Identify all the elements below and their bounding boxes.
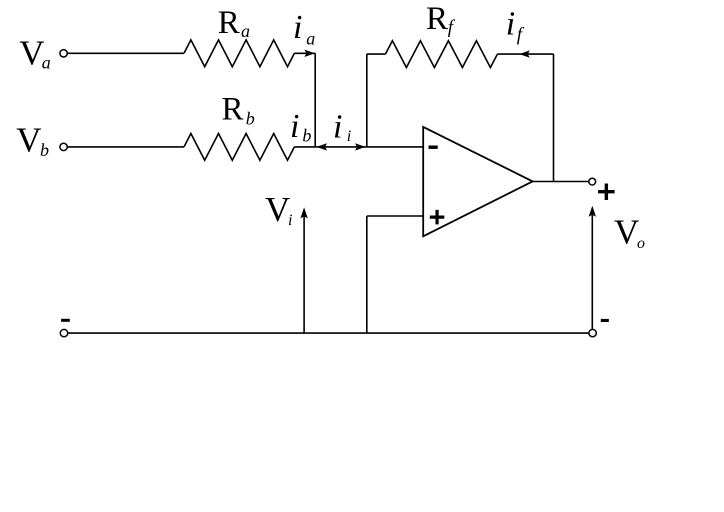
svg-text:i: i — [347, 128, 351, 145]
wire node B to op-amp inverting input — [367, 146, 423, 148]
arrowhead current ii — [355, 143, 366, 150]
arrowhead Vi — [300, 207, 307, 218]
wire Vo arrow line — [591, 209, 593, 329]
svg-text:V: V — [265, 190, 290, 229]
wire op-amp noninverting input — [367, 215, 423, 217]
svg-text:f: f — [517, 25, 525, 46]
svg-text:R: R — [218, 5, 240, 41]
svg-text:i: i — [293, 9, 302, 46]
svg-text:b: b — [302, 126, 311, 146]
svg-text:i: i — [290, 108, 299, 145]
svg-text:R: R — [426, 1, 448, 37]
wire op-amp output — [533, 181, 589, 183]
node output terminal — [589, 178, 596, 185]
wire node A vertical — [314, 53, 316, 147]
wire Vi arrow line — [303, 211, 305, 333]
arrowhead current if — [519, 50, 530, 57]
node Va terminal — [60, 50, 67, 57]
op-amp minus sign — [429, 146, 438, 149]
wire node A to node B — [315, 146, 367, 148]
node bottom-right terminal — [589, 329, 596, 336]
op-amp U1 — [423, 127, 532, 236]
resistor Ra — [184, 40, 294, 67]
svg-text:i: i — [506, 5, 515, 42]
svg-text:f: f — [448, 17, 456, 38]
svg-text:a: a — [306, 29, 315, 49]
svg-text:a: a — [42, 53, 51, 73]
svg-text:o: o — [637, 235, 645, 252]
wire ground rail — [68, 332, 589, 334]
wire Ra to node A — [294, 52, 315, 54]
resistor Rf — [385, 41, 497, 68]
svg-text:V: V — [16, 121, 41, 160]
svg-text:R: R — [222, 91, 244, 127]
arrowhead Vo — [589, 206, 596, 217]
wire feedback left vertical — [366, 54, 368, 147]
resistor Rb — [184, 134, 294, 161]
svg-text:V: V — [614, 212, 639, 251]
left minus sign — [61, 319, 70, 322]
svg-text:i: i — [333, 109, 342, 146]
wire Va to Ra — [67, 52, 184, 54]
wire to Rf — [367, 53, 386, 55]
right minus sign — [601, 319, 609, 322]
wire feedback right vertical — [553, 54, 555, 181]
svg-text:b: b — [40, 140, 49, 160]
svg-text:a: a — [241, 21, 250, 41]
svg-text:i: i — [288, 212, 292, 229]
wire Rb to node A — [294, 146, 315, 148]
svg-text:V: V — [19, 34, 44, 73]
output plus sign — [598, 184, 615, 201]
arrowhead current ia — [304, 50, 315, 57]
node Vb terminal — [60, 143, 67, 150]
svg-text:b: b — [246, 108, 255, 128]
wire Rf to feedback right vertical — [497, 53, 553, 55]
wire Vb to Rb — [67, 146, 184, 148]
wire noninverting input to ground rail — [366, 216, 368, 333]
op-amp plus sign — [430, 210, 445, 225]
node bottom-left terminal — [60, 329, 67, 336]
arrowhead current ib — [317, 143, 328, 150]
